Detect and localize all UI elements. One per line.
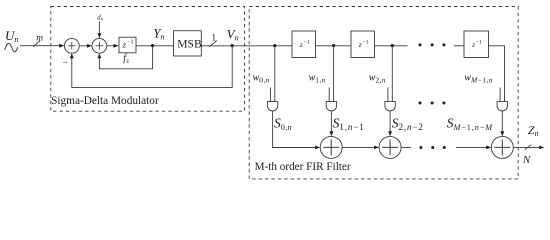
svg-text:−1: −1	[127, 39, 134, 46]
multiplier gate G2	[385, 102, 395, 111]
sigma-delta modulator dashed box	[51, 7, 245, 112]
multiplier gate GM	[497, 102, 507, 111]
M-th order FIR filter dashed box	[249, 7, 518, 179]
wire adder A2 to ellipsis	[401, 146, 411, 148]
summer S2	[92, 38, 107, 53]
multiplier gate G0	[267, 102, 277, 111]
arrowhead feedback into S2 bottom	[98, 53, 102, 58]
wire feedback Vn to summer S1	[72, 46, 232, 88]
delay block Z0	[119, 37, 136, 53]
wire gate G1 output to adder A1 top	[330, 111, 332, 133]
arrowhead into adder AM top	[500, 131, 504, 136]
arrowhead into summer S1	[59, 44, 64, 48]
MSB block	[174, 31, 202, 56]
node tap0 junction	[273, 44, 276, 47]
summer S1	[64, 38, 79, 53]
wire weight w1 into gate G1	[328, 88, 330, 102]
svg-text:fs: fs	[123, 53, 129, 65]
svg-text:−1: −1	[476, 40, 482, 46]
wire gate GM output to adder AM top	[501, 111, 503, 133]
delay block Z2	[351, 31, 375, 58]
svg-text:Yn: Yn	[153, 25, 164, 41]
svg-text:z: z	[299, 40, 303, 49]
delay block ZM	[464, 31, 489, 58]
arrowhead into delay Z0	[114, 44, 119, 48]
node Vn junction	[231, 44, 234, 47]
wire ellipsis to adder AM	[456, 146, 488, 148]
wire weight wM1 into gate GM	[499, 88, 501, 102]
svg-text:S2,n−2: S2,n−2	[392, 116, 424, 132]
svg-text:dn: dn	[97, 14, 103, 22]
wire feedback Z0 output to summer S2	[99, 46, 152, 69]
svg-text:−1: −1	[304, 40, 310, 46]
arrowhead into adder A2 left	[374, 146, 379, 150]
wire weight w0 into gate G0	[269, 88, 271, 102]
ellipsis bottom row	[419, 146, 445, 149]
wire Z1 to Z2	[316, 45, 352, 47]
bus slash 1	[209, 41, 217, 47]
bus slash m	[33, 41, 40, 47]
arrowhead into adder A1 top	[330, 131, 334, 136]
svg-text:w2,n: w2,n	[369, 72, 386, 84]
svg-text:Sigma-Delta Modulator: Sigma-Delta Modulator	[51, 95, 159, 107]
bus slash N	[525, 145, 532, 150]
svg-text:Vn: Vn	[227, 26, 239, 42]
svg-text:M-th order FIR Filter: M-th order FIR Filter	[255, 161, 351, 173]
svg-text:Un: Un	[5, 28, 19, 44]
svg-text:S1,n−1: S1,n−1	[333, 116, 365, 132]
wire MSB to FIR input	[201, 45, 292, 47]
adder AM	[491, 136, 513, 158]
node tap2 junction	[391, 44, 394, 47]
svg-text:z: z	[358, 40, 362, 49]
wire tap1 down to gate G1	[333, 46, 335, 102]
node tap1 junction	[332, 44, 335, 47]
arrowhead feedback into S1 bottom	[70, 53, 74, 58]
svg-text:−: −	[63, 58, 69, 69]
svg-text:N: N	[522, 154, 531, 166]
arrowhead into adder A1 left	[315, 146, 320, 150]
adder A1	[320, 136, 342, 158]
svg-text:SM−1,n−M: SM−1,n−M	[447, 116, 493, 132]
svg-text:Zn: Zn	[528, 123, 539, 138]
arrowhead into adder AM left	[486, 146, 491, 150]
multiplier gate G1	[326, 102, 336, 111]
wire ZM output to gate GM	[489, 46, 505, 102]
svg-text:m: m	[36, 33, 43, 43]
ellipsis middle row	[419, 102, 446, 105]
adder A2	[379, 136, 401, 158]
wire summer S2 to delay Z0	[107, 45, 115, 47]
ellipsis top row	[419, 43, 446, 46]
svg-text:MSB: MSB	[177, 38, 202, 51]
wire Z2 to ellipsis	[375, 45, 408, 47]
wire gate G2 output to adder A2 top	[389, 111, 391, 133]
wire adder A1 to adder A2	[342, 146, 376, 148]
arrowhead into summer S2	[87, 44, 92, 48]
svg-text:−1: −1	[363, 40, 369, 46]
wire gate G0 output to adder A1	[273, 111, 317, 148]
wire weight w2 into gate G2	[387, 88, 389, 102]
arrowhead output Zn	[539, 146, 544, 150]
wire summer S1 to summer S2	[79, 45, 88, 47]
svg-text:w1,n: w1,n	[309, 72, 326, 84]
arrowhead into adder A2 top	[388, 131, 392, 136]
arrowhead dn into S2 top	[98, 33, 102, 38]
svg-text:wM−1,n: wM−1,n	[464, 72, 492, 84]
sine source symbol	[5, 43, 18, 51]
wire Un to summer S1	[20, 45, 61, 47]
wire tap2 down to gate G2	[391, 46, 393, 102]
wire ellipsis to delay ZM	[454, 45, 464, 47]
svg-text:S0,n: S0,n	[274, 116, 292, 132]
wire tap0 down to gate G0	[274, 46, 276, 102]
delay block Z1	[292, 31, 316, 58]
svg-text:z: z	[471, 40, 475, 49]
svg-text:1: 1	[211, 33, 216, 43]
svg-text:w0,n: w0,n	[253, 72, 270, 84]
wire delay Z0 to MSB	[136, 45, 174, 47]
wire dn into summer S2	[98, 22, 100, 36]
wire output Zn	[513, 146, 541, 148]
node Yn junction	[151, 44, 154, 47]
